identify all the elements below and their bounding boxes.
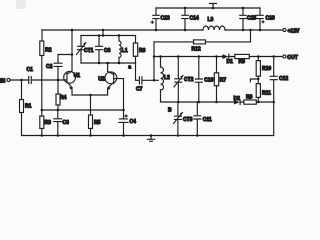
svg-text:R10: R10: [262, 66, 271, 72]
wire: U1 emitter to common node: [72, 88, 91, 95]
wire: mid bias rail y=110: [42, 109, 124, 111]
terminal OUT: [283, 55, 286, 58]
node A wire down to C7: [136, 63, 140, 80]
svg-text:U1: U1: [74, 73, 81, 79]
svg-text:D1: D1: [227, 59, 234, 65]
svg-text:C15: C15: [247, 16, 256, 22]
wire: U1 collector column: [71, 30, 73, 71]
diode D1: [222, 54, 228, 59]
capacitor C2: [54, 55, 72, 81]
ground symbol: [147, 136, 154, 142]
capacitor C6: [96, 36, 103, 64]
capacitor C12: [270, 57, 277, 103]
resistor R12: [194, 40, 206, 44]
node junction R1: [20, 79, 23, 82]
capacitor C13: [153, 8, 159, 30]
svg-text:R1: R1: [25, 104, 32, 110]
resistor R1: [21, 80, 23, 136]
svg-text:OUT: OUT: [287, 55, 298, 61]
svg-text:C14: C14: [190, 16, 199, 22]
node junctions on main rail: [155, 29, 158, 32]
svg-text:R6: R6: [139, 48, 146, 54]
capacitor C7: [139, 77, 154, 84]
svg-text:B: B: [168, 108, 172, 114]
svg-text:C2: C2: [46, 64, 53, 70]
capacitor C10: [195, 57, 202, 103]
svg-text:R5: R5: [94, 120, 101, 126]
capacitor C4: [119, 110, 128, 136]
svg-text:L1: L1: [122, 48, 128, 54]
terminal IN: [7, 78, 10, 81]
wire: stub from R10/R11 node: [250, 79, 258, 82]
wire: tank2 / OUT rail y=56.5: [154, 56, 283, 58]
svg-text:R4: R4: [60, 95, 67, 101]
wire: U2 emitter to common node: [91, 88, 108, 95]
wire: U2 collector column: [107, 63, 109, 71]
svg-text:+12V: +12V: [288, 29, 300, 35]
svg-text:C12: C12: [279, 76, 288, 82]
wire: IN base wire y=80: [10, 79, 66, 81]
resistor R5: [90, 95, 92, 136]
resistor R9: [244, 100, 256, 104]
resistor R2: [41, 30, 43, 110]
svg-text:U2: U2: [98, 77, 105, 83]
terminal +12V: [283, 28, 286, 31]
svg-text:L3: L3: [208, 17, 214, 23]
node junction top rail stub: [212, 7, 215, 10]
capacitor C15: [240, 8, 246, 30]
svg-text:R12: R12: [192, 47, 201, 53]
wire: L2 tap: [154, 79, 158, 81]
wire: R12 feed line y=41.9: [154, 30, 251, 42]
node junction R10/R11: [257, 78, 260, 81]
resistor R7: [216, 57, 218, 103]
resistor R6: [133, 43, 137, 56]
svg-text:CT3: CT3: [183, 117, 193, 123]
node junction C7 / tank2 left edge: [153, 79, 156, 82]
svg-text:C11: C11: [203, 117, 212, 123]
node T-stub on top rail: [210, 4, 217, 9]
svg-text:CT1: CT1: [84, 48, 94, 54]
trimmer capacitor CT3: [174, 102, 181, 136]
svg-text:C13: C13: [161, 16, 170, 22]
svg-text:C16: C16: [266, 16, 275, 22]
svg-text:L2: L2: [164, 75, 170, 81]
node junction top rail C14: [184, 7, 187, 10]
svg-text:R9: R9: [246, 95, 253, 101]
diode D2: [234, 100, 240, 104]
capacitor C11: [194, 102, 201, 136]
capacitor C3: [54, 110, 62, 136]
svg-text:C4: C4: [130, 119, 137, 125]
node U2 collector junction: [106, 62, 109, 65]
resistor R3: [41, 110, 43, 136]
transistor U2: [105, 72, 117, 84]
node junction C12 top: [272, 55, 275, 58]
wire: tank1 feed from main rail: [102, 30, 104, 36]
svg-text:a: a: [128, 65, 131, 71]
resistor R4: [57, 80, 59, 110]
transistor U1: [64, 71, 76, 83]
svg-text:CT2: CT2: [184, 77, 194, 83]
trimmer capacitor CT2: [175, 57, 182, 103]
svg-text:C7: C7: [136, 87, 143, 93]
svg-text:D2: D2: [234, 96, 241, 102]
svg-text:R8: R8: [239, 59, 246, 65]
wire: tank1 top rail: [81, 35, 136, 37]
wire: right edge down to bottom rail: [273, 102, 275, 136]
inductor L3: [203, 26, 225, 30]
trimmer capacitor CT1: [78, 36, 85, 64]
svg-text:C3: C3: [63, 120, 70, 126]
svg-text:R2: R2: [45, 48, 52, 54]
wire: main +12V rail y=30: [42, 29, 283, 31]
svg-text:R3: R3: [45, 120, 52, 126]
node junction top rail C15: [242, 7, 245, 10]
wire: pi-filter top rail y=8: [156, 7, 260, 9]
node junction R10 top: [257, 55, 260, 58]
capacitor C1: [29, 77, 32, 84]
inductor L2: [160, 57, 162, 101]
capacitor C16: [257, 8, 263, 30]
wire: tank1 bottom rail: [81, 62, 136, 64]
svg-text:C1: C1: [27, 67, 34, 73]
capacitor C14: [182, 8, 188, 30]
svg-text:R7: R7: [220, 78, 227, 84]
svg-text:R11: R11: [262, 91, 271, 97]
resistor R8: [235, 54, 250, 58]
svg-text:IN: IN: [0, 78, 5, 84]
resistor R11: [257, 79, 259, 102]
wire: tank2 left edge: [153, 42, 155, 80]
svg-text:C6: C6: [104, 48, 111, 54]
node emitter junction: [89, 94, 92, 97]
wire: U2 base to bias rail: [114, 79, 124, 110]
wire: B node rail y=102: [161, 101, 274, 102]
resistor R10: [257, 57, 259, 80]
inductor L1: [118, 36, 120, 64]
node junction C2/collector: [71, 53, 74, 56]
wire: ground bottom rail y=135.5: [22, 135, 274, 137]
svg-text:C10: C10: [204, 78, 213, 84]
